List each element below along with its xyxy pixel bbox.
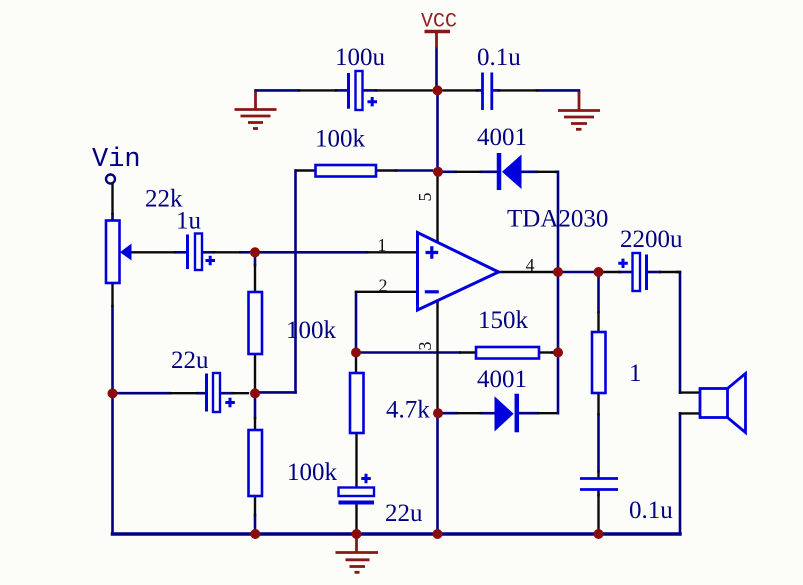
svg-text:150k: 150k <box>478 307 529 334</box>
svg-text:1: 1 <box>629 360 642 387</box>
svg-text:22u: 22u <box>171 347 209 374</box>
svg-text:4001: 4001 <box>477 366 527 393</box>
svg-text:100u: 100u <box>335 44 386 71</box>
svg-text:VCC: VCC <box>421 11 457 34</box>
svg-text:100k: 100k <box>287 459 338 486</box>
svg-text:4: 4 <box>526 255 535 275</box>
svg-text:5: 5 <box>415 193 435 202</box>
svg-text:2: 2 <box>379 276 388 296</box>
svg-text:2200u: 2200u <box>620 226 683 253</box>
svg-text:1: 1 <box>378 235 387 255</box>
svg-text:Vin: Vin <box>92 145 141 175</box>
svg-text:22u: 22u <box>385 500 423 527</box>
svg-text:4.7k: 4.7k <box>386 397 430 424</box>
svg-text:4001: 4001 <box>477 124 527 151</box>
svg-text:1u: 1u <box>176 208 202 235</box>
svg-text:100k: 100k <box>286 317 337 344</box>
svg-text:3: 3 <box>415 342 435 351</box>
svg-text:0.1u: 0.1u <box>477 44 521 71</box>
svg-text:100k: 100k <box>315 126 366 153</box>
svg-text:TDA2030: TDA2030 <box>507 206 608 233</box>
svg-text:0.1u: 0.1u <box>629 497 673 524</box>
